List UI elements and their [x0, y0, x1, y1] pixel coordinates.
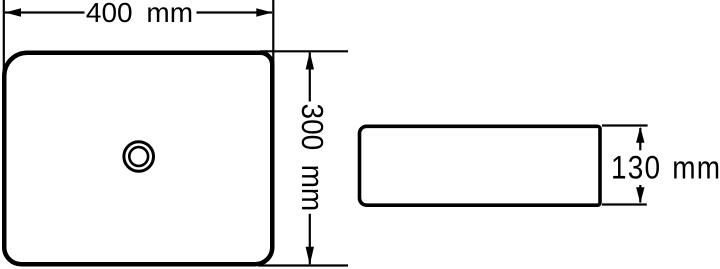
- svg-text:400: 400: [86, 0, 133, 28]
- svg-text:130: 130: [611, 151, 661, 186]
- svg-text:mm: mm: [146, 0, 193, 28]
- svg-text:mm: mm: [295, 165, 330, 212]
- svg-text:300: 300: [295, 104, 330, 151]
- svg-text:mm: mm: [672, 151, 720, 186]
